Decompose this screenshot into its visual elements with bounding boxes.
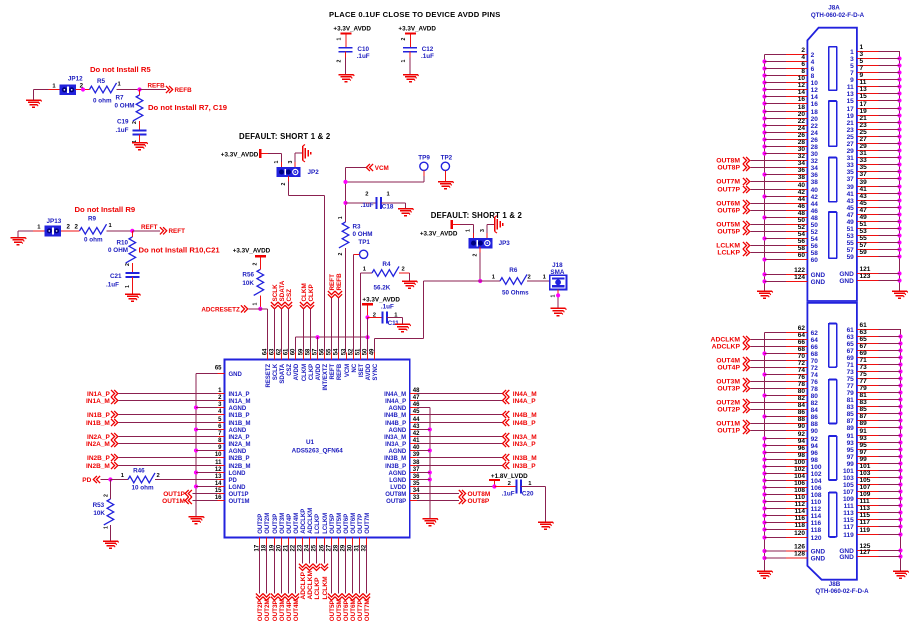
pin name GND 127: [839, 554, 854, 561]
wire J8B pin 71: [857, 364, 901, 366]
junction AGND bus pin 12: [194, 470, 198, 474]
junction J8B right bus pin 87: [898, 418, 902, 422]
wire J8B pin 61: [857, 329, 901, 331]
svg-text:10K: 10K: [93, 510, 105, 517]
pin number 32: [361, 544, 367, 551]
net label REFT (pin 55): [328, 274, 336, 352]
note: do not install R5: [90, 65, 151, 74]
pin 37 stub: [410, 472, 417, 474]
pin name AGND 40: [389, 449, 407, 455]
svg-text:62: 62: [811, 330, 819, 337]
wire J8B pin 113: [857, 512, 901, 514]
pin number J8A 21 inside: [847, 120, 855, 127]
wire J8A pin 9: [857, 79, 900, 81]
pin name AGND 3: [229, 406, 247, 412]
svg-text:57: 57: [312, 348, 318, 355]
svg-text:45: 45: [847, 205, 855, 212]
svg-text:IN4B_M: IN4B_M: [384, 413, 406, 419]
pin 1 C21: [125, 285, 131, 288]
pin number J8B 72 outside: [798, 360, 806, 367]
pin number J8B 71 inside: [847, 362, 855, 369]
pin number J8B 110 outside: [795, 494, 806, 501]
wire C10 to ground: [345, 52, 347, 75]
svg-text:88: 88: [811, 421, 819, 428]
svg-text:53: 53: [341, 348, 347, 355]
svg-text:J18: J18: [552, 262, 563, 269]
pin number J8A 124 outside: [794, 274, 805, 281]
pin 1 R3: [338, 216, 344, 219]
svg-text:REFT: REFT: [329, 274, 336, 291]
svg-text:.1uF: .1uF: [502, 490, 515, 497]
pin number 65: [215, 365, 222, 371]
pin name NC 52: [352, 363, 358, 372]
pin number J8B 67 inside: [847, 348, 855, 355]
svg-text:71: 71: [847, 362, 855, 369]
svg-text:2: 2: [157, 473, 160, 479]
svg-text:36: 36: [811, 172, 819, 179]
pin number J8B 79 outside: [860, 385, 868, 392]
svg-text:1: 1: [363, 267, 367, 273]
wire power to JP3 pin1: [453, 225, 474, 239]
svg-text:1: 1: [125, 285, 131, 288]
svg-text:IN2A_M: IN2A_M: [229, 442, 251, 448]
svg-text:31: 31: [860, 150, 868, 157]
ground R4: [402, 281, 418, 288]
label J18 SMA: [550, 262, 564, 276]
wire J8A pin 31: [857, 157, 900, 159]
junction J8B right bus pin 81: [898, 397, 902, 401]
svg-text:41: 41: [860, 186, 868, 193]
pin number J8B 68 outside: [798, 346, 806, 353]
junction J8A right bus pin 39: [897, 184, 901, 188]
pin number J8B 119 inside: [843, 532, 854, 539]
svg-text:111: 111: [860, 498, 871, 505]
svg-text:124: 124: [794, 274, 805, 281]
pin 11 stub: [217, 465, 224, 467]
svg-text:GND: GND: [839, 271, 854, 278]
wire J8A pin 14: [765, 96, 808, 98]
wire pin 37 to bus: [417, 472, 430, 474]
svg-text:C18: C18: [382, 204, 394, 211]
pin number 15: [215, 488, 222, 494]
pin number J8A 5 inside: [850, 63, 854, 70]
pin 2 R53: [103, 494, 109, 497]
svg-text:31: 31: [847, 155, 855, 162]
net label OUT1M (J8B pin 88): [716, 420, 749, 428]
wire bus to pin 65: [196, 373, 217, 375]
note: place 0.1uF close to device AVDD pins: [329, 10, 501, 19]
pin number J8B 77 inside: [847, 383, 855, 390]
wire junction to R6: [480, 280, 500, 282]
pin number J8B 79 inside: [847, 390, 855, 397]
wire J8A pin 57: [857, 249, 900, 251]
svg-text:106: 106: [811, 485, 822, 492]
junction J8B right bus pin 117: [898, 524, 902, 528]
svg-text:GND: GND: [229, 372, 243, 378]
label R6: [509, 267, 518, 274]
pin number J8A 52 outside: [798, 224, 806, 231]
svg-text:96: 96: [811, 450, 819, 457]
svg-text:OUT7M: OUT7M: [365, 513, 371, 534]
pin 48 stub: [410, 393, 417, 395]
pin number J8B 74 inside: [811, 372, 819, 379]
wire JP2 pin2: [288, 176, 324, 196]
svg-text:37: 37: [860, 171, 868, 178]
resistor R53: [104, 499, 114, 525]
pin number 49: [369, 348, 375, 355]
svg-text:50: 50: [362, 348, 368, 355]
label J8A: [828, 5, 840, 12]
pin number J8A 59 inside: [847, 254, 855, 261]
svg-text:66: 66: [798, 339, 806, 346]
wire junction to R53: [109, 480, 111, 500]
pin number J8A 32 outside: [798, 153, 806, 160]
pin number 14: [215, 481, 222, 487]
pin number J8A 47 outside: [860, 207, 868, 214]
wire J8B pin 72: [751, 367, 808, 369]
wire J8A pin 59: [857, 256, 900, 258]
svg-text:GND: GND: [811, 556, 826, 563]
pin number J8A 43 outside: [860, 193, 868, 200]
pin name IN2A_P 7: [229, 435, 250, 441]
svg-text:OUT1P: OUT1P: [717, 428, 740, 435]
junction node REFT: [130, 229, 134, 233]
svg-text:76: 76: [811, 379, 819, 386]
pin name OUT3P 19: [273, 514, 279, 534]
svg-text:16: 16: [811, 101, 819, 108]
wire rail to pin 57: [317, 337, 319, 352]
resistor R7: [133, 95, 143, 121]
svg-text:33: 33: [860, 157, 868, 164]
svg-text:2: 2: [67, 224, 71, 231]
wire J8B pin 117: [857, 526, 901, 528]
wire JP3 pin2 down: [479, 247, 481, 281]
pin number J8B 125 outside: [860, 543, 871, 550]
pin 2 R3: [338, 253, 344, 256]
svg-text:93: 93: [860, 435, 868, 442]
pin name IN3B_M 39: [384, 456, 406, 462]
svg-text:IN1A_M: IN1A_M: [86, 398, 110, 405]
pin number J8A 8 inside: [811, 73, 815, 80]
pin 42 stub: [410, 436, 417, 438]
pin number J8B 114 inside: [811, 513, 822, 520]
slot J8B 3: [829, 436, 837, 480]
wire R7 to C19: [139, 121, 141, 130]
net label OUT1P (J8B pin 90): [717, 427, 749, 435]
net label LCLKP (J8A pin 58): [717, 249, 749, 257]
svg-text:IN4B_M: IN4B_M: [513, 412, 537, 419]
pin number J8B 89 inside: [847, 425, 855, 432]
pin 2 R46: [157, 473, 160, 479]
svg-text:114: 114: [811, 513, 822, 520]
pin number J8B 95 outside: [860, 442, 868, 449]
junction J8B left bus pin 94: [762, 443, 766, 447]
svg-text:OUT6M: OUT6M: [351, 513, 357, 534]
net label OUT2M (pin 18): [263, 545, 271, 621]
ground J8A left bus: [757, 291, 773, 298]
pin number J8A 23 outside: [860, 122, 868, 129]
pin number 48: [413, 388, 420, 394]
wire J8A pin 2: [765, 54, 808, 56]
svg-text:OUT7P: OUT7P: [717, 187, 740, 194]
pin number J8B 93 outside: [860, 435, 868, 442]
svg-text:115: 115: [843, 517, 854, 524]
wire J8B pin 116: [765, 522, 808, 524]
pin number J8A 18 inside: [811, 109, 819, 116]
pin number J8A 19 outside: [860, 108, 868, 115]
pin 5 stub: [217, 422, 224, 424]
wire J8A pin 13: [857, 93, 900, 95]
slot J8A 2: [829, 101, 837, 146]
junction J8A GND left 122: [762, 272, 766, 276]
svg-text:IN1B_P: IN1B_P: [229, 413, 250, 419]
pin number 44: [413, 417, 420, 423]
pin name ADCLKP 23: [301, 509, 307, 534]
svg-text:C11: C11: [388, 320, 400, 327]
svg-text:89: 89: [860, 420, 868, 427]
pin number J8B 83 inside: [847, 404, 855, 411]
value C11 .1uF: [381, 304, 394, 311]
wire TP1 to pin 52: [354, 254, 360, 352]
pin number J8B 100 outside: [794, 459, 805, 466]
pin number J8A 57 outside: [860, 242, 868, 249]
svg-text:OUT8M: OUT8M: [716, 158, 740, 165]
junction J8A left bus pin 42: [762, 194, 766, 198]
pin number J8A 24 outside: [798, 125, 806, 132]
pin number J8A 54 outside: [798, 231, 806, 238]
note: do not install R9: [75, 205, 136, 214]
resistor R46: [128, 473, 155, 483]
wire J8B pin 76: [751, 381, 808, 383]
pin 50 stub: [367, 352, 369, 359]
wire J8A pin 37: [857, 178, 900, 180]
arrow ADCRESETZ: [241, 305, 248, 312]
pin 21 stub: [288, 538, 290, 546]
pin number J8B 75 inside: [847, 376, 855, 383]
resistor R10: [126, 237, 136, 263]
svg-text:2: 2: [103, 494, 109, 497]
svg-text:24: 24: [798, 125, 806, 132]
svg-text:IN1B_M: IN1B_M: [229, 421, 251, 427]
value C20 .1uF: [502, 490, 515, 497]
svg-text:OUT1M: OUT1M: [716, 421, 740, 428]
wire C18 to ground: [381, 203, 406, 209]
svg-text:SDATA: SDATA: [280, 363, 286, 383]
ground J8A right bus: [892, 291, 908, 298]
label R10 0 OHM: [108, 240, 128, 255]
svg-text:LCLKM: LCLKM: [322, 576, 329, 600]
pin 6 stub: [217, 429, 224, 431]
pin number J8B 110 inside: [811, 499, 822, 506]
svg-text:LCLKP: LCLKP: [717, 250, 740, 257]
junction J8A left bus pin 18: [762, 109, 766, 113]
pin name OUT6M 30: [351, 513, 357, 534]
pin number J8A 45 outside: [860, 200, 868, 207]
wire J8B pin 105: [857, 484, 901, 486]
wire J8B pin 86: [765, 416, 808, 418]
svg-text:98: 98: [798, 452, 806, 459]
power bar JP3: [451, 220, 453, 229]
label C18: [382, 204, 394, 211]
label R9: [88, 216, 97, 223]
jumper JP13: [45, 226, 61, 236]
svg-text:OUT3P: OUT3P: [717, 386, 740, 393]
pin 33 stub: [410, 500, 417, 502]
junction J8B right bus pin 69: [898, 355, 902, 359]
junction J8B right bus pin 91: [898, 433, 902, 437]
pin number J8B 107 outside: [860, 484, 871, 491]
junction J8B right bus pin 77: [898, 383, 902, 387]
label JP12: [68, 75, 83, 82]
wire J8B pin 120: [765, 537, 808, 539]
net label CSZ (pin 61): [285, 289, 293, 353]
svg-text:105: 105: [860, 477, 871, 484]
net label OUT8M: [417, 490, 490, 498]
svg-text:8: 8: [811, 73, 815, 80]
pins C11: [373, 312, 399, 318]
svg-text:5: 5: [860, 58, 864, 65]
pin number 18: [261, 544, 267, 551]
svg-text:88: 88: [798, 416, 806, 423]
wire J8A pin 52: [751, 231, 808, 233]
pin number J8B 85 inside: [847, 411, 855, 418]
pin number 30: [347, 544, 353, 551]
net label OUT1M: [162, 497, 217, 505]
svg-text:56: 56: [319, 348, 325, 355]
wire J8A pin 1: [857, 51, 900, 53]
svg-text:PD: PD: [82, 477, 91, 484]
pin number J8A 25 inside: [847, 134, 855, 141]
svg-text:64: 64: [811, 337, 819, 344]
pin 34 stub: [410, 493, 417, 495]
pin number 7: [218, 431, 222, 437]
net label OUT6M (pin 30): [349, 545, 357, 621]
pin number J8B 74 outside: [798, 367, 806, 374]
connector J8B body: [807, 303, 857, 580]
pin number 62: [276, 348, 282, 355]
pin 1 C19: [132, 140, 138, 143]
wire J8A pin 25: [857, 136, 900, 138]
pin number J8B 83 outside: [860, 399, 868, 406]
pin number J8B 62 outside: [798, 325, 806, 332]
wire R10 to C21: [131, 263, 133, 273]
pin number J8B 76 outside: [798, 374, 806, 381]
junction J8A left bus pin 6: [762, 66, 766, 70]
pin number J8A 1 outside: [860, 44, 864, 51]
svg-text:11: 11: [860, 79, 867, 86]
svg-text:2: 2: [473, 254, 479, 257]
pin number J8A 58 outside: [798, 245, 806, 252]
pin number J8A 22 outside: [798, 118, 806, 125]
pin number J8B 97 inside: [847, 454, 855, 461]
pin 52 stub: [353, 352, 355, 359]
svg-text:9: 9: [860, 72, 864, 79]
wire J8A pin 29: [857, 150, 900, 152]
pin number J8A 51 outside: [860, 221, 868, 228]
svg-text:23: 23: [847, 127, 855, 134]
ground left AGND bus: [189, 517, 205, 524]
pin number J8B 69 inside: [847, 355, 855, 362]
net label OUT7P (pin 31): [356, 545, 364, 621]
svg-text:30: 30: [798, 146, 806, 153]
svg-text:74: 74: [811, 372, 819, 379]
junction J8B left bus pin 92: [762, 436, 766, 440]
pin number J8A 7 inside: [850, 70, 854, 77]
net label LCLKP (pin 25): [313, 545, 321, 599]
pin number J8A 41 outside: [860, 186, 868, 193]
wire J8B pin 65: [857, 343, 901, 345]
svg-text:0 OHM: 0 OHM: [353, 231, 373, 238]
pin number J8B 68 inside: [811, 351, 819, 358]
svg-text:91: 91: [860, 428, 868, 435]
svg-text:SCLK: SCLK: [272, 284, 279, 302]
svg-text:47: 47: [860, 207, 868, 214]
pin number 16: [215, 495, 222, 501]
svg-text:44: 44: [811, 201, 819, 208]
pin number J8A 39 inside: [847, 184, 855, 191]
svg-text:52: 52: [798, 224, 806, 231]
svg-text:58: 58: [798, 245, 806, 252]
pin name IN1A_M 2: [229, 399, 251, 405]
svg-text:R56: R56: [242, 271, 254, 278]
svg-text:2: 2: [281, 183, 287, 186]
power +3.3V_AVDD (JP3): [420, 230, 458, 237]
wire J8A pin 39: [857, 186, 900, 188]
net label OUT4P (J8B pin 72): [717, 364, 749, 372]
svg-text:TP2: TP2: [441, 154, 453, 161]
svg-text:1: 1: [401, 60, 407, 63]
svg-text:OUT6P: OUT6P: [343, 600, 350, 621]
wire bus to pin 14: [196, 486, 217, 488]
wire J8B pin 74: [765, 374, 808, 376]
pin number 51: [355, 348, 361, 355]
svg-text:54: 54: [798, 231, 806, 238]
pin number J8A 2 outside: [801, 47, 805, 54]
wire J8A pin 60: [765, 259, 808, 261]
svg-text:CLKM: CLKM: [301, 283, 308, 301]
pin number 54: [333, 348, 339, 355]
pin number J8A 59 outside: [860, 249, 868, 256]
pin number J8A 60 inside: [811, 257, 819, 264]
wire J8A pin 6: [765, 68, 808, 70]
junction J8B right bus pin 115: [898, 517, 902, 521]
svg-text:CLKM: CLKM: [302, 364, 308, 381]
junction J8B left bus pin 120: [762, 535, 766, 539]
ground J18: [551, 308, 567, 315]
wire J8A pin 32: [751, 160, 808, 162]
svg-text:REFT: REFT: [330, 363, 336, 379]
pin number J8B 62 inside: [811, 330, 819, 337]
junction J8B left bus pin 102: [762, 471, 766, 475]
pin name ADCLKM 24: [308, 508, 314, 534]
pin number J8B 78 outside: [798, 381, 806, 388]
junction J8A right bus pin 21: [897, 120, 901, 124]
pin number J8B 117 inside: [843, 524, 854, 531]
svg-text:2: 2: [125, 263, 131, 266]
svg-text:OUT2P: OUT2P: [717, 407, 740, 414]
svg-text:OUT3M: OUT3M: [716, 379, 740, 386]
wire J8B pin 64: [751, 339, 808, 341]
wire J8A pin 18: [765, 111, 808, 113]
label JP2: [308, 169, 320, 176]
pin number J8B 92 outside: [798, 431, 806, 438]
net label IN2A_M: [86, 440, 217, 448]
net label REFT: [141, 224, 158, 231]
pin number J8A 26 inside: [811, 137, 819, 144]
pin 2 R4: [402, 267, 405, 273]
wire R9 to REFT node: [107, 230, 133, 232]
junction J8A right bus pin 53: [897, 233, 901, 237]
